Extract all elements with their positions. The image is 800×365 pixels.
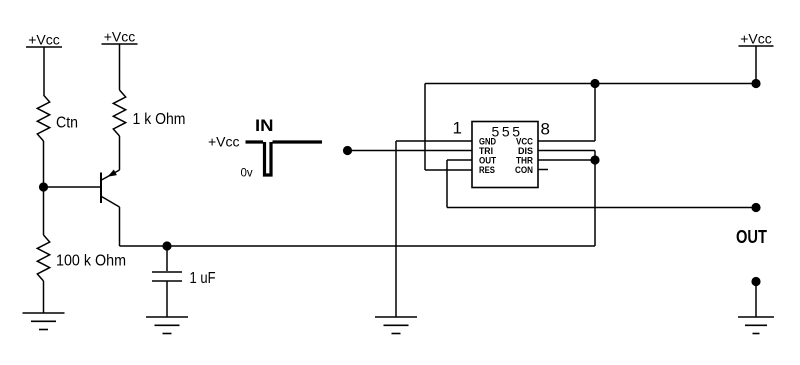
svg-text:+Vcc: +Vcc: [104, 29, 136, 45]
wire: 100k to ground: [43, 281, 45, 313]
wire: riser x=425 up to top rail: [424, 84, 426, 171]
wire: OUT long run to output terminal: [447, 207, 756, 209]
power terminal +Vcc (feeds 1k collector load): [102, 29, 138, 45]
wire: DIS pin right: [538, 150, 595, 152]
ground (capacitor): [146, 317, 188, 334]
power terminal +Vcc (left, feeds Ctn): [26, 32, 62, 48]
resistor Ctn: [37, 95, 78, 141]
svg-text:8: 8: [541, 120, 550, 139]
wire: VCC pin to rail riser: [538, 140, 595, 142]
wire: +Vcc stub to rail: [755, 46, 757, 84]
wire: Q1 collector down to timing node: [119, 207, 121, 246]
node: capacitor tap junction dot: [162, 241, 171, 250]
input pulse waveform symbol IN: [208, 116, 322, 180]
wire: Ctn bottom to base node: [43, 141, 45, 187]
resistor R 100 k Ohm: [37, 235, 126, 281]
svg-text:1: 1: [453, 119, 462, 138]
wire: base wire from node to Q1: [44, 186, 102, 188]
wire: capacitor to ground: [166, 282, 168, 318]
wire: top +Vcc rail: [425, 83, 756, 85]
svg-text:1 k Ohm: 1 k Ohm: [133, 111, 186, 128]
node: THR/DIS junction dot: [590, 155, 599, 164]
node: junction dot at transistor base divider: [39, 182, 48, 191]
wire: THR pin right: [538, 159, 595, 161]
node: rail end terminal dot: [751, 79, 760, 88]
svg-text:+Vcc: +Vcc: [208, 134, 240, 150]
wire: dot to right ground: [755, 282, 757, 318]
resistor 1 k Ohm: [113, 90, 185, 136]
ground (555 GND pin): [375, 317, 417, 334]
wire: +Vcc to 1k resistor top: [119, 44, 121, 90]
wire: VCC riser: [594, 84, 596, 142]
transistor Q1 (PNP): [101, 170, 120, 208]
wire: +Vcc to resistor Ctn top: [43, 47, 45, 95]
wire: OUT down: [446, 160, 448, 208]
wire: node to 100k resistor: [43, 187, 45, 235]
ground (left divider): [23, 313, 65, 330]
node: junction dot VCC rail: [590, 79, 599, 88]
power terminal +Vcc (right rail): [739, 31, 774, 47]
wire: CON pin stub: [538, 169, 548, 171]
wire: GND pin to ground drop: [396, 140, 472, 142]
svg-text:Ctn: Ctn: [56, 115, 78, 132]
wire: THR/DIS net down to timing rail: [594, 160, 596, 246]
svg-text:+Vcc: +Vcc: [28, 32, 60, 48]
svg-text:OUT: OUT: [736, 227, 767, 247]
node: ground terminal dot (right): [751, 277, 760, 286]
svg-text:0v: 0v: [241, 168, 253, 180]
ground (right output reference): [738, 317, 774, 334]
svg-text:CON: CON: [515, 165, 533, 176]
wire: trigger dot to TRI pin: [348, 150, 473, 152]
wire: GND vertical to ground: [395, 141, 397, 317]
svg-text:IN: IN: [255, 116, 274, 135]
svg-text:1 uF: 1 uF: [190, 270, 216, 287]
svg-text:RES: RES: [479, 165, 495, 176]
wire: 1k bottom to transistor emitter: [119, 136, 121, 170]
node: trigger input terminal dot: [343, 146, 352, 155]
node: OUT terminal dot: [751, 203, 760, 212]
wire: DIS down to THR junction: [594, 151, 596, 161]
wire: RES pin to Vcc rail riser: [425, 169, 472, 171]
svg-text:100 k Ohm: 100 k Ohm: [56, 253, 126, 270]
op-amp/timer U1 555 body: [472, 122, 538, 188]
capacitor C1 1 uF: [152, 270, 216, 287]
wire: OUT pin left: [447, 159, 472, 161]
wire: timing node horizontal rail (collector/cap to THR-DIS): [120, 245, 596, 247]
svg-text:+Vcc: +Vcc: [740, 31, 772, 47]
wire: junction down to capacitor: [166, 246, 168, 271]
